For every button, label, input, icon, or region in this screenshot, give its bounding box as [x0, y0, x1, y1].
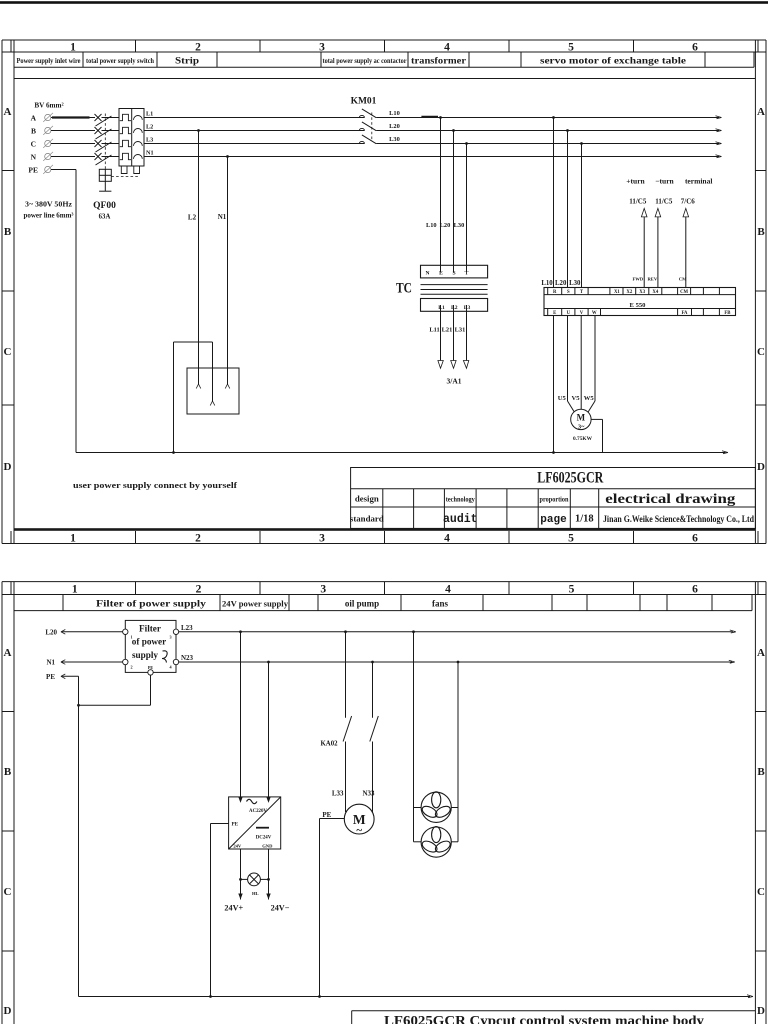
- page 1 column ticks bottom: [10, 531, 12, 544]
- svg-text:LF6025GCR: LF6025GCR: [537, 470, 604, 487]
- svg-text:D: D: [4, 1005, 12, 1017]
- svg-text:B: B: [4, 226, 12, 238]
- KM01 linkage dashed: [371, 113, 373, 142]
- page 2 header band: [14, 610, 752, 612]
- inverter E550 body: [544, 288, 736, 316]
- svg-text:FWD: FWD: [632, 277, 643, 282]
- svg-text:E: E: [553, 311, 556, 316]
- wire PSU N feed: [268, 662, 270, 797]
- wire TC feed 2: [453, 131, 455, 273]
- svg-text:KA02: KA02: [321, 741, 339, 748]
- svg-text:1: 1: [70, 533, 76, 545]
- wire N33: [372, 742, 374, 813]
- E550 bottom terminal row: [544, 308, 736, 310]
- svg-text:7/C6: 7/C6: [681, 198, 696, 206]
- svg-text:QF00: QF00: [93, 201, 116, 211]
- svg-text:CM: CM: [679, 277, 687, 282]
- svg-text:3~: 3~: [578, 423, 585, 430]
- control arrow X4: [657, 216, 659, 288]
- transformer TC core lines: [421, 284, 488, 286]
- node bus-socket junction: [172, 451, 175, 454]
- page 1 drawing border top line: [14, 78, 755, 80]
- transformer TC primary box: [421, 265, 488, 278]
- node bus pump junction: [318, 995, 321, 998]
- svg-text:L10: L10: [389, 110, 400, 117]
- svg-text:24V: 24V: [233, 843, 242, 848]
- svg-text:0.75KW: 0.75KW: [573, 436, 593, 442]
- earth bus page2: [79, 996, 751, 998]
- filter box: [125, 620, 176, 672]
- svg-text:4: 4: [444, 42, 450, 54]
- node L23-fan junction: [412, 630, 415, 633]
- svg-text:technology: technology: [446, 495, 475, 504]
- indicator lamp HL: [239, 878, 242, 881]
- node L20-TC junction: [452, 129, 455, 132]
- wire KA02 upper 1: [345, 632, 347, 718]
- svg-text:servo motor of exchange table: servo motor of exchange table: [540, 57, 686, 67]
- svg-text:2: 2: [130, 664, 132, 669]
- svg-text:63A: 63A: [99, 214, 111, 221]
- svg-text:−turn: −turn: [655, 177, 674, 186]
- svg-text:B: B: [757, 766, 765, 778]
- svg-text:2: 2: [195, 533, 201, 545]
- wire TC out 2 with arrow: [453, 305, 455, 364]
- page 1 bottom thick border: [14, 528, 755, 531]
- svg-text:D: D: [4, 461, 12, 473]
- fan motor 1: [421, 792, 451, 822]
- svg-text:L30: L30: [389, 136, 400, 143]
- page 2 inner margin verticals: [13, 582, 15, 1024]
- svg-text:design: design: [355, 494, 379, 504]
- svg-text:N1: N1: [146, 149, 154, 156]
- svg-text:L1: L1: [438, 305, 445, 311]
- svg-text:L30: L30: [454, 222, 465, 229]
- relay contact KA02 pole1: [343, 716, 352, 742]
- wire TC out 1 with arrow: [440, 305, 442, 364]
- breaker pole thermal + magnetic symbols: [120, 114, 131, 120]
- svg-text:M: M: [577, 412, 586, 422]
- input connectors: [45, 114, 51, 120]
- svg-text:11/C5: 11/C5: [629, 198, 647, 206]
- svg-text:L20: L20: [45, 628, 57, 636]
- wire motor to bus: [591, 418, 602, 420]
- control arrow X3: [643, 216, 645, 288]
- svg-text:W5: W5: [584, 395, 595, 402]
- svg-text:transformer: transformer: [411, 56, 466, 66]
- svg-text:L33: L33: [332, 790, 344, 798]
- svg-text:X2: X2: [626, 290, 632, 295]
- node N23-KA02 junction: [371, 661, 374, 664]
- breaker trip linkage dashed: [104, 114, 106, 170]
- page 2 zone ticks: [2, 711, 14, 713]
- svg-text:L11: L11: [429, 327, 439, 334]
- wire 24V- output: [268, 849, 270, 900]
- E550 top terminal row: [544, 294, 736, 296]
- svg-text:E: E: [439, 270, 443, 276]
- svg-text:6: 6: [692, 533, 698, 545]
- svg-text:electrical drawing: electrical drawing: [605, 491, 735, 506]
- svg-text:24V power supply: 24V power supply: [222, 599, 289, 608]
- svg-text:BV 6mm²: BV 6mm²: [34, 102, 63, 110]
- wire E550 feed T: [581, 144, 583, 288]
- wire fan rail left: [413, 632, 415, 842]
- svg-text:S: S: [567, 290, 570, 295]
- wire A with thick entry segment: [51, 117, 95, 119]
- svg-text:Filter: Filter: [139, 624, 161, 634]
- svg-text:L2: L2: [451, 305, 458, 311]
- wire N: [51, 156, 95, 158]
- svg-text:L31: L31: [455, 327, 466, 334]
- svg-text:~: ~: [356, 825, 362, 837]
- svg-text:4: 4: [445, 583, 451, 595]
- svg-text:B: B: [31, 126, 36, 135]
- socket box: [187, 368, 239, 414]
- power supply unit 24V: [229, 797, 281, 849]
- wire fan rail right: [457, 662, 459, 842]
- svg-text:C: C: [4, 886, 12, 898]
- wire E550 feed S: [567, 131, 569, 288]
- page 1 inner margin verticals: [13, 40, 15, 544]
- wire 24V+ output: [240, 849, 242, 900]
- wire KA02 upper 2: [372, 662, 374, 718]
- socket pin N: [227, 368, 229, 384]
- svg-text:N33: N33: [362, 790, 375, 798]
- wire L30 to right margin arrow: [376, 143, 719, 145]
- svg-text:of power: of power: [132, 637, 166, 647]
- svg-text:standard: standard: [350, 514, 384, 524]
- svg-text:1: 1: [130, 634, 132, 639]
- breaker QF00 switch X contacts and blades: [95, 114, 102, 121]
- svg-text:A: A: [757, 647, 765, 659]
- wire L2 drop to socket: [198, 131, 200, 369]
- svg-text:B: B: [757, 226, 765, 238]
- node L20-E550 junction: [566, 129, 569, 132]
- svg-text:supply: supply: [132, 650, 158, 660]
- wire socket PE bend: [173, 342, 175, 453]
- svg-text:3~ 380V 50Hz: 3~ 380V 50Hz: [25, 201, 73, 209]
- wire W5: [594, 316, 596, 402]
- wire L33: [345, 742, 347, 813]
- svg-text:audit: audit: [443, 513, 478, 526]
- node PE junction: [77, 704, 80, 707]
- oil pump motor: [344, 804, 374, 834]
- svg-text:total power supply switch: total power supply switch: [86, 57, 154, 65]
- svg-text:5: 5: [568, 533, 574, 545]
- title block page1: [351, 468, 756, 529]
- svg-text:1/18: 1/18: [575, 514, 594, 525]
- svg-text:A: A: [757, 106, 765, 118]
- svg-text:24V−: 24V−: [271, 904, 290, 913]
- node L23-PSU junction: [239, 630, 242, 633]
- node N23-fan junction: [457, 661, 460, 664]
- svg-text:A: A: [31, 113, 37, 122]
- svg-text:3: 3: [319, 42, 325, 54]
- svg-text:L2: L2: [146, 123, 153, 130]
- svg-text:N23: N23: [181, 654, 194, 662]
- wire L3 breaker to KM01: [144, 143, 365, 145]
- svg-text:FB: FB: [724, 311, 731, 316]
- wire L10 to right margin arrow: [376, 117, 719, 119]
- svg-text:R: R: [553, 290, 557, 295]
- filter terminals: [123, 629, 128, 634]
- svg-text:1: 1: [70, 42, 76, 54]
- svg-text:4: 4: [444, 533, 450, 545]
- svg-text:N: N: [31, 152, 37, 161]
- page 2 outer frame: [2, 581, 766, 583]
- svg-text:terminal: terminal: [685, 177, 713, 186]
- svg-text:C: C: [4, 346, 12, 358]
- svg-text:REV: REV: [647, 277, 657, 282]
- wire PE left drop: [62, 675, 79, 677]
- svg-text:L21: L21: [442, 327, 453, 334]
- wire TC feed 1: [440, 118, 442, 273]
- shunt release earth stub: [104, 181, 106, 191]
- svg-text:PE: PE: [148, 665, 154, 670]
- svg-text:3: 3: [320, 583, 326, 595]
- wire TC feed 3: [466, 144, 468, 273]
- breaker QF00 body: [119, 109, 144, 167]
- relay contact KA02 pole2: [370, 716, 379, 742]
- svg-text:X4: X4: [652, 290, 658, 295]
- node bus PSU junction: [209, 995, 212, 998]
- svg-text:N: N: [425, 270, 429, 276]
- motor M 3~: [571, 409, 591, 429]
- svg-text:V5: V5: [571, 395, 580, 402]
- wire V5: [580, 316, 582, 410]
- svg-text:T: T: [465, 270, 469, 276]
- svg-text:3: 3: [169, 634, 171, 639]
- svg-text:U5: U5: [558, 395, 567, 402]
- svg-text:L2: L2: [188, 214, 197, 222]
- svg-text:U: U: [567, 311, 571, 316]
- svg-text:6: 6: [692, 583, 698, 595]
- svg-text:AC220V: AC220V: [249, 809, 267, 814]
- svg-text:N1: N1: [218, 213, 227, 221]
- wire U5: [567, 316, 569, 402]
- control arrow CM: [685, 216, 687, 288]
- svg-text:S: S: [452, 270, 455, 276]
- svg-text:DC24V: DC24V: [256, 836, 272, 841]
- breaker bottom stubs: [121, 166, 127, 174]
- wire PSU L feed: [240, 632, 242, 797]
- svg-text:E 550: E 550: [630, 302, 647, 309]
- page 1 header band: [14, 66, 754, 68]
- wire E550 feed R: [553, 118, 555, 288]
- svg-text:PE: PE: [28, 165, 38, 174]
- node L30-E550 junction: [580, 142, 583, 145]
- wire L2 breaker to KM01: [144, 130, 365, 132]
- PSU PE wire: [211, 823, 229, 825]
- svg-text:W: W: [592, 311, 597, 316]
- node L23-KA02 junction: [344, 630, 347, 633]
- title block page2: [352, 1010, 756, 1012]
- svg-text:A: A: [4, 106, 12, 118]
- svg-text:2: 2: [195, 42, 201, 54]
- svg-text:LF6025GCR Cypcut control syste: LF6025GCR Cypcut control system machine …: [384, 1013, 704, 1024]
- svg-text:L20: L20: [440, 222, 451, 229]
- node N1 drop junction: [226, 155, 229, 158]
- node N23-PSU junction: [267, 661, 270, 664]
- wire TC out 3 with arrow: [466, 305, 468, 364]
- svg-text:L20: L20: [389, 123, 400, 130]
- svg-text:B: B: [4, 766, 12, 778]
- wire filter PE to earth: [150, 675, 152, 705]
- svg-text:CM: CM: [680, 290, 688, 295]
- socket pin PE: [212, 368, 214, 401]
- svg-text:PE: PE: [46, 673, 55, 681]
- node L10-TC junction: [439, 116, 442, 119]
- page 1 column ticks top: [10, 40, 12, 52]
- svg-text:Filter of power supply: Filter of power supply: [96, 598, 207, 608]
- svg-text:L10: L10: [541, 280, 553, 287]
- wire L1 breaker to KM01: [144, 117, 365, 119]
- svg-text:V: V: [580, 311, 584, 316]
- shunt release dashed link to stubs: [111, 176, 139, 178]
- earth bus page1: [76, 452, 726, 454]
- svg-text:D: D: [757, 1005, 765, 1017]
- svg-text:user power supply connect by y: user power supply connect by yourself: [73, 480, 238, 490]
- svg-text:L30: L30: [569, 280, 581, 287]
- svg-text:L3: L3: [464, 305, 471, 311]
- fan 1 taps: [414, 807, 422, 809]
- svg-text:page: page: [540, 514, 567, 526]
- svg-text:N1: N1: [46, 659, 55, 667]
- node L2 drop junction: [197, 129, 200, 132]
- page 2 column ticks: [10, 582, 12, 595]
- svg-text:KM01: KM01: [351, 97, 377, 107]
- svg-text:L3: L3: [146, 136, 153, 143]
- svg-text:L23: L23: [181, 624, 193, 632]
- svg-text:fans: fans: [432, 598, 449, 608]
- wire L20 to right margin arrow: [376, 130, 719, 132]
- svg-text:X1: X1: [614, 290, 620, 295]
- svg-text:+turn: +turn: [626, 177, 645, 186]
- svg-text:TC: TC: [396, 281, 412, 297]
- svg-text:24V+: 24V+: [224, 904, 243, 913]
- svg-text:proportion: proportion: [540, 496, 569, 503]
- svg-text:6: 6: [692, 42, 698, 54]
- svg-text:3: 3: [319, 533, 325, 545]
- svg-text:L20: L20: [555, 280, 567, 287]
- svg-text:GND: GND: [262, 843, 273, 848]
- svg-text:2: 2: [196, 583, 202, 595]
- svg-text:5: 5: [569, 583, 575, 595]
- page 1 zone boundary ticks: [2, 170, 14, 172]
- svg-text:3/A1: 3/A1: [447, 377, 462, 386]
- wire PE down to earth bus: [51, 169, 76, 171]
- svg-text:5: 5: [568, 42, 574, 54]
- svg-text:C: C: [31, 139, 36, 148]
- svg-text:L10: L10: [426, 222, 437, 229]
- svg-text:FA: FA: [681, 311, 688, 316]
- wire N1 breaker to right margin arrow: [144, 156, 719, 158]
- fan 2 taps: [414, 841, 422, 843]
- svg-text:L1: L1: [146, 110, 153, 117]
- node L10-E550 junction: [552, 116, 555, 119]
- socket pin L: [198, 368, 200, 384]
- svg-text:X3: X3: [639, 290, 645, 295]
- svg-text:1: 1: [72, 583, 78, 595]
- wire E550 earth to bus: [553, 316, 555, 453]
- node bus-E junction: [552, 451, 555, 454]
- svg-text:total power supply ac contacto: total power supply ac contactor: [323, 57, 408, 65]
- wire N1 drop to socket: [227, 157, 229, 369]
- svg-text:power line 6mm³: power line 6mm³: [24, 212, 74, 220]
- svg-text:Jinan G.Weike Science&Technolo: Jinan G.Weike Science&Technology Co., Lt…: [603, 514, 754, 524]
- svg-text:PE: PE: [231, 822, 238, 828]
- svg-text:Power supply inlet wire: Power supply inlet wire: [17, 57, 81, 65]
- wire C: [51, 143, 95, 145]
- svg-text:HL: HL: [252, 891, 259, 896]
- previous page bottom edge (thick rule at very top): [0, 1, 768, 4]
- svg-text:oil pump: oil pump: [345, 598, 379, 608]
- svg-text:Strip: Strip: [175, 57, 199, 67]
- svg-text:D: D: [757, 461, 765, 473]
- transformer TC secondary box: [421, 299, 488, 312]
- svg-text:C: C: [757, 346, 765, 358]
- svg-text:11/C5: 11/C5: [655, 198, 673, 206]
- shunt release box: [99, 169, 111, 181]
- wire B: [51, 130, 95, 132]
- page 1 outer frame: [2, 39, 766, 41]
- svg-text:C: C: [757, 886, 765, 898]
- fan motor 2: [421, 827, 451, 857]
- node L30-TC junction: [465, 142, 468, 145]
- svg-text:A: A: [4, 647, 12, 659]
